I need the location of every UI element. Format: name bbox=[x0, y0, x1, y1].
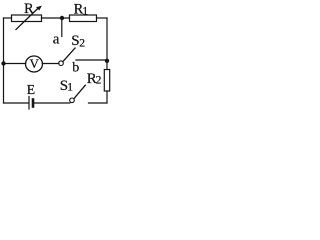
svg-text:R: R bbox=[24, 1, 34, 17]
svg-text:b: b bbox=[72, 61, 79, 76]
node b wire bbox=[76, 59, 107, 61]
wire bottom-right bbox=[89, 102, 108, 104]
switch S2 pivot bbox=[59, 61, 64, 66]
node junction dot right bbox=[105, 59, 109, 63]
svg-text:1: 1 bbox=[67, 81, 73, 93]
svg-text:2: 2 bbox=[96, 75, 102, 87]
rheostat arrow bbox=[16, 7, 39, 29]
svg-text:2: 2 bbox=[79, 38, 85, 50]
wire top-right bbox=[97, 17, 108, 19]
svg-text:1: 1 bbox=[82, 6, 88, 18]
wire top-middle bbox=[42, 17, 70, 19]
node junction dot top bbox=[60, 16, 64, 20]
svg-text:a: a bbox=[53, 31, 60, 47]
voltmeter V bbox=[26, 56, 43, 72]
wire voltmeter right bbox=[42, 63, 59, 65]
resistor R (rheostat box) bbox=[12, 15, 42, 22]
wire voltmeter left bbox=[4, 63, 26, 65]
wire top-left bbox=[4, 17, 12, 19]
svg-text:V: V bbox=[30, 56, 40, 71]
switch S2 blade bbox=[63, 48, 75, 62]
svg-text:E: E bbox=[27, 83, 36, 98]
battery E bbox=[28, 97, 30, 110]
wire bottom-left bbox=[4, 102, 29, 104]
switch S1 blade bbox=[74, 85, 85, 98]
resistor R2 box bbox=[104, 70, 109, 92]
wire battery to S1 bbox=[34, 102, 70, 104]
node a wire (vertical from top junction) bbox=[61, 18, 63, 37]
wire right wall upper bbox=[106, 18, 108, 70]
node junction dot left bbox=[1, 61, 5, 65]
wire right wall lower bbox=[106, 91, 108, 103]
wire left wall bbox=[3, 18, 5, 103]
resistor R1 box bbox=[70, 15, 97, 22]
switch S1 pivot bbox=[70, 98, 75, 103]
